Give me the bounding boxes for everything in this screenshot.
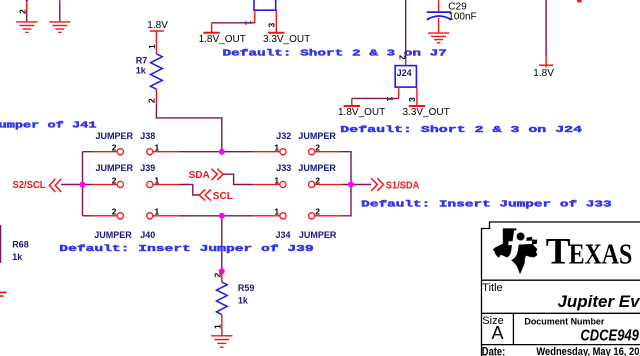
- svg-text:1: 1: [155, 175, 160, 185]
- svg-text:A: A: [492, 323, 504, 343]
- svg-text:J24: J24: [397, 68, 412, 78]
- svg-text:2: 2: [18, 9, 28, 14]
- svg-text:JUMPER: JUMPER: [96, 163, 134, 173]
- svg-text:1: 1: [274, 175, 279, 185]
- svg-text:Jupiter Ev: Jupiter Ev: [558, 293, 640, 311]
- svg-text:S1/SDA: S1/SDA: [386, 180, 420, 191]
- jumper J38: [92, 149, 180, 155]
- jumper J33: [253, 181, 341, 187]
- jumper J34: [253, 213, 341, 219]
- svg-text:J32: J32: [276, 131, 291, 141]
- svg-text:1: 1: [147, 44, 157, 49]
- off-page connector S1/SDA: [371, 178, 383, 191]
- wire row3 middle: [180, 215, 254, 217]
- svg-text:JUMPER: JUMPER: [299, 230, 337, 240]
- svg-text:Date:: Date:: [482, 346, 506, 356]
- wire rail to S1/SDA: [351, 184, 371, 186]
- svg-text:J33: J33: [276, 163, 291, 173]
- svg-text:S2/SCL: S2/SCL: [13, 180, 46, 191]
- wire: 1.8V feed at right: [545, 0, 547, 56]
- connector J24 (3-pin header): [395, 66, 417, 106]
- jumper J39: [92, 181, 180, 187]
- svg-text:JUMPER: JUMPER: [94, 230, 132, 240]
- svg-text:1.8V: 1.8V: [147, 20, 168, 31]
- svg-text:2: 2: [112, 207, 117, 217]
- ground of R59: [211, 336, 232, 347]
- svg-text:Title: Title: [482, 282, 502, 294]
- svg-text:J40: J40: [140, 230, 155, 240]
- svg-text:R68: R68: [12, 240, 29, 250]
- svg-text:SDA: SDA: [189, 170, 210, 181]
- svg-text:R7: R7: [136, 55, 148, 65]
- svg-text:CDCE949: CDCE949: [580, 328, 639, 345]
- svg-text:EXAS: EXAS: [569, 240, 633, 271]
- svg-text:1: 1: [274, 207, 279, 217]
- resistor stub (cut at left edge): [0, 292, 7, 294]
- wire row3 down to R59: [221, 216, 223, 271]
- svg-text:3: 3: [407, 97, 417, 102]
- svg-text:1: 1: [213, 324, 223, 329]
- svg-text:Default: Insert Jumper of J33: Default: Insert Jumper of J33: [361, 200, 612, 210]
- svg-text:2: 2: [112, 175, 117, 185]
- wire from J7 pin1 to 1.8V_OUT flag: [212, 22, 255, 24]
- svg-text:2: 2: [112, 143, 117, 153]
- svg-text:J39: J39: [140, 163, 155, 173]
- off-page connector SCL: [199, 189, 211, 200]
- svg-text:2: 2: [147, 98, 157, 103]
- svg-text:2: 2: [213, 273, 223, 278]
- power flag 1.8V_OUT (under J7): [203, 32, 219, 34]
- wire: control line down to J24: [405, 0, 407, 57]
- svg-text:100nF: 100nF: [448, 11, 476, 22]
- wire SDA to J33 pin1: [223, 174, 253, 184]
- ground of C29: [428, 33, 449, 43]
- svg-text:1k: 1k: [238, 296, 249, 306]
- svg-text:Default: Short 2 & 3 on J7: Default: Short 2 & 3 on J7: [223, 48, 447, 58]
- wire SCL to J39 pin1: [180, 185, 200, 196]
- svg-text:1: 1: [274, 143, 279, 153]
- jumper J32: [253, 149, 341, 155]
- ground G2 (top left, second): [49, 0, 70, 32]
- svg-text:SCL: SCL: [213, 191, 233, 202]
- resistor R59: [216, 271, 227, 336]
- connector J7 (3-pin header, cut at top): [254, 0, 276, 33]
- svg-text:1k: 1k: [12, 252, 23, 262]
- svg-text:JUMPER: JUMPER: [298, 131, 336, 141]
- svg-text:JUMPER: JUMPER: [298, 163, 336, 173]
- svg-text:3.3V_OUT: 3.3V_OUT: [403, 107, 450, 118]
- wire row1 middle: [180, 151, 254, 153]
- wire from R7 to jumper row 1: [156, 104, 221, 151]
- svg-text:1k: 1k: [136, 66, 147, 76]
- svg-text:Wednesday, May 16, 20: Wednesday, May 16, 20: [536, 346, 639, 356]
- TI logo (Texas map with ti): [493, 228, 538, 274]
- svg-text:2: 2: [315, 143, 320, 153]
- jumper J40: [92, 213, 180, 219]
- junction remnant at top edge: [577, 0, 582, 2]
- svg-text:1: 1: [155, 143, 160, 153]
- title block frame: [482, 222, 640, 356]
- svg-text:J38: J38: [140, 131, 155, 141]
- svg-text:Default: Short 2 & 3 on J24: Default: Short 2 & 3 on J24: [340, 125, 583, 135]
- ground G1 (top left): [16, 0, 37, 32]
- capacitor C29: [427, 0, 452, 33]
- svg-text:R59: R59: [238, 283, 255, 293]
- svg-text:2: 2: [315, 175, 320, 185]
- svg-text:1: 1: [155, 207, 160, 217]
- svg-text:2: 2: [315, 207, 320, 217]
- left jumper rail wire: [83, 152, 92, 216]
- svg-text:3.3V_OUT: 3.3V_OUT: [263, 34, 310, 45]
- svg-text:3: 3: [267, 23, 277, 28]
- svg-text:J34: J34: [276, 230, 291, 240]
- power flag 1.8V_OUT (under J24): [344, 105, 360, 107]
- svg-text:Default: Insert Jumper of J39: Default: Insert Jumper of J39: [59, 244, 313, 254]
- resistor R7: [151, 35, 163, 104]
- wire from J24 pin1 to 1.8V_OUT flag: [352, 97, 399, 99]
- wire S2/SCL to left rail: [61, 184, 82, 186]
- svg-text:Document Number: Document Number: [524, 317, 604, 328]
- power flag 3.3V_OUT (under J7): [268, 32, 284, 34]
- wire at left edge: [0, 225, 2, 263]
- power symbol 1.8V (right): [539, 65, 553, 67]
- junction dots: [219, 149, 225, 155]
- svg-text:1.8V_OUT: 1.8V_OUT: [338, 107, 385, 118]
- right jumper rail wire: [342, 152, 351, 216]
- power symbol 1.8V (feeds R7): [150, 31, 164, 35]
- svg-text:JUMPER: JUMPER: [96, 131, 134, 141]
- svg-text:umper of J41: umper of J41: [0, 121, 97, 131]
- svg-text:1.8V_OUT: 1.8V_OUT: [199, 34, 246, 45]
- svg-text:T: T: [546, 232, 571, 273]
- svg-text:1.8V: 1.8V: [533, 68, 554, 79]
- svg-text:2: 2: [398, 55, 408, 60]
- power flag 3.3V_OUT (under J24): [409, 105, 425, 107]
